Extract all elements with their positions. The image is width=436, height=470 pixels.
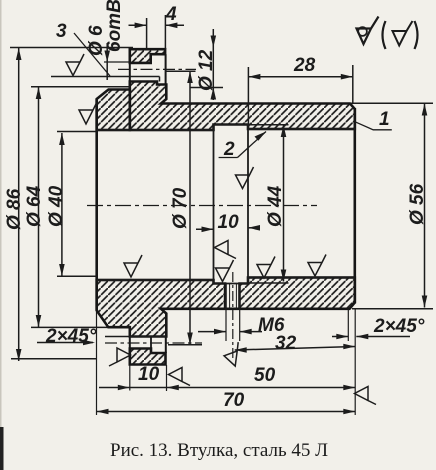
svg-text:Ø 12: Ø 12 bbox=[196, 49, 217, 91]
roughness mark T9 bbox=[236, 167, 254, 189]
svg-text:2×45°: 2×45° bbox=[373, 316, 425, 337]
hatched section: upper-left cylinder wall bbox=[97, 90, 130, 131]
dimension Ø70 bolt circle bbox=[165, 71, 202, 345]
svg-text:28: 28 bbox=[293, 55, 316, 76]
bore top line left of groove bbox=[97, 129, 214, 131]
svg-text:10: 10 bbox=[138, 364, 160, 385]
dimension 70 overall bbox=[97, 390, 356, 414]
roughness mark T6 bbox=[308, 255, 326, 277]
svg-text:Ø 64: Ø 64 bbox=[24, 185, 45, 227]
svg-text:50: 50 bbox=[254, 365, 276, 386]
lower bolt hole axis bbox=[105, 342, 202, 344]
label Ø6 hole leader bbox=[86, 0, 130, 80]
overall roughness symbol top right bbox=[357, 17, 418, 50]
extension lines bottom bbox=[97, 309, 356, 415]
flange right face silhouette (upper) bbox=[165, 54, 167, 84]
roughness mark T1 bbox=[66, 54, 84, 76]
groove right edge bbox=[247, 125, 249, 284]
dimension Ø56 bbox=[350, 103, 433, 309]
hole channel bottom line + roughness leader (top flange) bbox=[51, 76, 160, 78]
scan artifact: dark strip bottom-left edge bbox=[0, 427, 4, 470]
roughness mark T4 bbox=[216, 260, 234, 282]
hatched section: upper flange mass + body top wall with groove notch bbox=[130, 82, 355, 131]
svg-text:2×45°: 2×45° bbox=[45, 326, 97, 347]
flange right face silhouette (lower) bbox=[165, 337, 167, 354]
bore bottom line right of groove bbox=[248, 276, 355, 278]
svg-text:Ø 70: Ø 70 bbox=[170, 187, 191, 229]
bore bottom line left of groove bbox=[97, 279, 214, 281]
dimension Ø12 counterbore bbox=[190, 29, 223, 100]
bottom flange channel top line + leader bbox=[105, 336, 166, 338]
roughness mark T10 rotated left bbox=[215, 241, 237, 259]
svg-text:1: 1 bbox=[379, 109, 390, 130]
roughness mark T11 bbox=[355, 387, 377, 405]
dimension Ø44 groove bbox=[248, 125, 289, 283]
dimension 10 groove width bbox=[196, 212, 260, 233]
M6 thread outer lines bbox=[225, 284, 227, 309]
dimension Ø64 bbox=[24, 87, 130, 328]
dimension 2x45 bottom left bbox=[37, 326, 97, 347]
left face line bbox=[95, 99, 98, 311]
bore top line right of groove bbox=[248, 128, 355, 130]
flange left face silhouette (upper) bbox=[129, 63, 131, 90]
svg-text:Ø 44: Ø 44 bbox=[265, 185, 286, 227]
dimension 28 bbox=[248, 55, 352, 125]
groove left edge bbox=[213, 125, 215, 284]
hatched section: lower body + flange mass with groove and M6 hole bbox=[97, 278, 355, 337]
groove top line bbox=[214, 124, 249, 126]
roughness mark T2 bbox=[79, 102, 97, 124]
channel/counterbore step vertical (top) bbox=[159, 77, 161, 82]
roughness mark T7a bbox=[109, 348, 131, 366]
flange left face silhouette (lower) bbox=[129, 337, 131, 349]
roughness mark T8 bbox=[221, 342, 245, 368]
svg-text:Ø 56: Ø 56 bbox=[407, 183, 428, 225]
dimension M6 bbox=[198, 309, 285, 341]
label 2 with leader bbox=[219, 132, 266, 161]
right face line bbox=[353, 108, 356, 304]
svg-text:3: 3 bbox=[56, 21, 67, 42]
M6 hole axis bbox=[232, 272, 234, 360]
svg-text:4: 4 bbox=[165, 4, 177, 25]
svg-text:32: 32 bbox=[275, 333, 297, 354]
roughness mark T5 bbox=[257, 257, 275, 279]
roughness mark T3 bbox=[124, 255, 142, 277]
label 1 with leader bbox=[355, 109, 392, 130]
M6 thread inner lines bbox=[229, 284, 231, 309]
main axis center line bbox=[87, 205, 317, 207]
svg-text:6отВ.: 6отВ. bbox=[104, 0, 125, 52]
hatched section: flange bottom piece bbox=[130, 349, 166, 365]
dimension 10 flange / 50 shared line bbox=[99, 364, 355, 390]
counterbore left wall (lower) bbox=[150, 337, 152, 353]
dimension 4 counterbore depth bbox=[129, 4, 185, 49]
svg-text:Рис. 13. Втулка, сталь 45 Л: Рис. 13. Втулка, сталь 45 Л bbox=[110, 440, 328, 461]
svg-text:10: 10 bbox=[218, 212, 240, 233]
dimension 2x45 bottom right bbox=[332, 309, 425, 341]
svg-text:Ø 86: Ø 86 bbox=[4, 188, 25, 230]
dimension Ø86 bbox=[4, 48, 133, 362]
roughness mark T7b bbox=[169, 368, 191, 386]
upper bolt hole axis bbox=[118, 68, 196, 70]
groove bottom line bbox=[214, 283, 249, 285]
svg-text:Ø 40: Ø 40 bbox=[46, 185, 67, 227]
dimension 32 bbox=[235, 333, 356, 354]
hatched section: flange top block with counterbore strip bbox=[130, 49, 165, 63]
dimension Ø40 bbox=[46, 132, 97, 277]
scan artifact: faint left edge bbox=[0, 0, 2, 470]
label 3 with leader bbox=[56, 21, 110, 76]
svg-text:70: 70 bbox=[223, 390, 245, 411]
